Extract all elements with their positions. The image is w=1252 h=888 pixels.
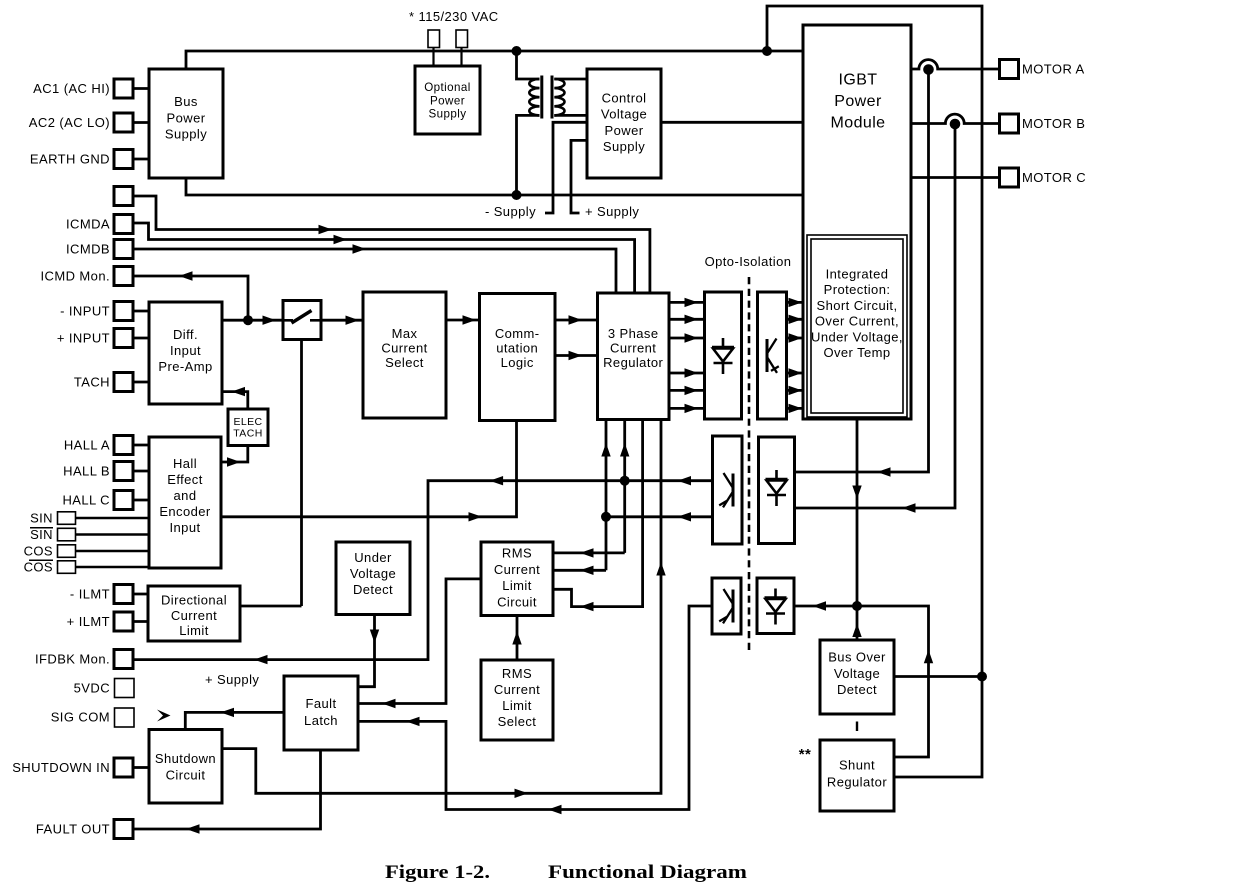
svg-text:Input: Input [169, 520, 200, 535]
svg-text:Under Voltage,: Under Voltage, [811, 329, 903, 344]
svg-text:Bus: Bus [174, 94, 198, 109]
svg-text:and: and [174, 488, 197, 503]
svg-text:Current: Current [494, 562, 540, 577]
svg-text:+ ILMT: + ILMT [67, 614, 110, 629]
svg-text:Power: Power [167, 111, 206, 126]
svg-text:Supply: Supply [429, 108, 467, 121]
svg-text:Voltage: Voltage [601, 107, 647, 122]
svg-text:SIG COM: SIG COM [51, 710, 110, 725]
svg-text:Hall: Hall [173, 456, 197, 471]
svg-text:- ILMT: - ILMT [70, 587, 110, 602]
svg-text:Select: Select [385, 355, 424, 370]
svg-text:+ Supply: + Supply [205, 672, 259, 687]
svg-text:EARTH GND: EARTH GND [30, 152, 110, 167]
svg-text:Control: Control [602, 91, 647, 106]
svg-text:Circuit: Circuit [166, 768, 206, 783]
svg-text:ICMDA: ICMDA [66, 217, 110, 232]
svg-text:3 Phase: 3 Phase [608, 326, 659, 341]
svg-text:Over Temp: Over Temp [823, 345, 890, 360]
svg-text:Current: Current [610, 341, 656, 356]
svg-text:* 115/230 VAC: * 115/230 VAC [409, 9, 499, 24]
svg-text:TACH: TACH [233, 428, 262, 440]
svg-text:Limit: Limit [179, 623, 209, 638]
svg-text:Bus Over: Bus Over [828, 650, 886, 665]
svg-text:Select: Select [498, 714, 537, 729]
svg-text:Limit: Limit [502, 578, 532, 593]
svg-text:Circuit: Circuit [497, 595, 537, 610]
svg-text:Power: Power [605, 123, 644, 138]
svg-text:Diff.: Diff. [173, 327, 198, 342]
svg-text:Short Circuit,: Short Circuit, [816, 298, 897, 313]
svg-text:Module: Module [831, 115, 886, 132]
svg-text:Current: Current [494, 682, 540, 697]
svg-text:Voltage: Voltage [834, 666, 880, 681]
svg-text:IFDBK Mon.: IFDBK Mon. [35, 652, 110, 667]
svg-text:AC1 (AC HI): AC1 (AC HI) [33, 81, 110, 96]
svg-text:Latch: Latch [304, 713, 338, 728]
svg-text:Current: Current [381, 341, 427, 356]
svg-text:MOTOR A: MOTOR A [1022, 62, 1085, 77]
svg-text:5VDC: 5VDC [74, 681, 110, 696]
svg-text:RMS: RMS [502, 546, 532, 561]
svg-text:HALL B: HALL B [63, 464, 110, 479]
svg-text:Regulator: Regulator [827, 775, 887, 790]
svg-text:Functional Diagram: Functional Diagram [548, 863, 748, 883]
svg-text:TACH: TACH [74, 375, 110, 390]
svg-text:IGBT: IGBT [838, 72, 877, 89]
svg-text:Power: Power [430, 95, 465, 108]
svg-text:SIN: SIN [30, 527, 53, 542]
svg-text:Comm-: Comm- [495, 326, 540, 341]
svg-text:Over Current,: Over Current, [815, 314, 899, 329]
svg-text:MOTOR C: MOTOR C [1022, 170, 1086, 185]
svg-text:Power: Power [834, 93, 882, 110]
svg-text:Max: Max [392, 326, 418, 341]
svg-text:Supply: Supply [603, 139, 645, 154]
svg-text:Supply: Supply [165, 127, 207, 142]
svg-text:COS: COS [24, 560, 53, 575]
svg-text:Integrated: Integrated [826, 267, 889, 282]
svg-text:ICMDB: ICMDB [66, 242, 110, 257]
svg-text:Current: Current [171, 608, 217, 623]
svg-text:COS: COS [24, 544, 53, 559]
svg-text:Detect: Detect [353, 582, 393, 597]
svg-text:Shunt: Shunt [839, 758, 875, 773]
svg-text:RMS: RMS [502, 666, 532, 681]
svg-text:FAULT OUT: FAULT OUT [36, 822, 110, 837]
svg-text:HALL A: HALL A [64, 438, 110, 453]
svg-text:MOTOR B: MOTOR B [1022, 116, 1085, 131]
svg-text:SIN: SIN [30, 511, 53, 526]
svg-text:Effect: Effect [167, 472, 203, 487]
svg-text:Protection:: Protection: [824, 282, 891, 297]
svg-text:Optional: Optional [424, 81, 471, 94]
svg-text:Detect: Detect [837, 682, 877, 697]
svg-text:+ Supply: + Supply [585, 204, 639, 219]
svg-text:Fault: Fault [305, 696, 336, 711]
svg-text:ELEC: ELEC [233, 416, 262, 428]
svg-text:- Supply: - Supply [485, 204, 536, 219]
svg-text:Limit: Limit [502, 698, 532, 713]
svg-text:Logic: Logic [501, 355, 534, 370]
svg-text:Encoder: Encoder [159, 504, 211, 519]
svg-text:+ INPUT: + INPUT [57, 331, 110, 346]
svg-text:AC2 (AC LO): AC2 (AC LO) [29, 115, 110, 130]
svg-text:Regulator: Regulator [603, 355, 663, 370]
svg-text:Input: Input [170, 343, 201, 358]
svg-text:ICMD Mon.: ICMD Mon. [40, 269, 110, 284]
svg-text:Figure 1-2.: Figure 1-2. [385, 863, 490, 883]
svg-text:utation: utation [496, 341, 538, 356]
svg-text:**: ** [799, 746, 812, 763]
svg-text:Pre-Amp: Pre-Amp [158, 359, 212, 374]
svg-text:Shutdown: Shutdown [155, 751, 216, 766]
svg-text:Directional: Directional [161, 593, 227, 608]
svg-text:- INPUT: - INPUT [60, 304, 110, 319]
svg-text:Voltage: Voltage [350, 566, 396, 581]
svg-text:SHUTDOWN IN: SHUTDOWN IN [12, 760, 110, 775]
svg-text:Opto-Isolation: Opto-Isolation [705, 254, 792, 269]
svg-text:Under: Under [354, 550, 392, 565]
svg-text:HALL C: HALL C [62, 493, 110, 508]
